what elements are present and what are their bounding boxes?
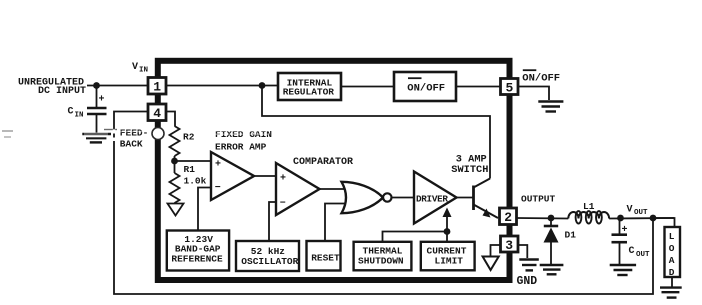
diode D1 xyxy=(550,218,552,226)
svg-text:4: 4 xyxy=(153,106,161,121)
ground under CIN xyxy=(82,133,111,135)
ground at pin5 xyxy=(538,100,563,102)
transistor Q1 3 amp switch xyxy=(472,186,475,211)
svg-text:R2: R2 xyxy=(183,132,195,143)
wire: bandgap to error amp - input xyxy=(198,188,211,231)
wire: comparator out to gate xyxy=(320,188,347,190)
svg-text:ON/OFF: ON/OFF xyxy=(522,72,560,84)
svg-text:V: V xyxy=(627,205,633,216)
svg-text:OUT: OUT xyxy=(636,251,650,259)
box: oscillator xyxy=(236,241,299,271)
wire: pin1 to internal regulator xyxy=(167,85,278,87)
svg-text:LIMIT: LIMIT xyxy=(435,255,464,266)
ground arrow below R1 xyxy=(168,204,184,216)
svg-text:GND: GND xyxy=(517,275,538,288)
node: feedback divider junction xyxy=(171,158,178,165)
capacitor CIN xyxy=(87,107,107,110)
svg-text:L1: L1 xyxy=(583,201,595,212)
load box xyxy=(665,227,681,277)
resistor R2 xyxy=(170,126,180,156)
svg-text:+: + xyxy=(622,225,628,236)
ground at pin3 xyxy=(519,258,539,260)
svg-text:R1: R1 xyxy=(184,164,196,175)
node: Vout junction xyxy=(650,215,657,222)
node: input junction xyxy=(93,82,100,89)
wire: feedback loop (pin4 left, down, bottom, up to Vout) xyxy=(114,112,653,295)
svg-text:ON/OFF: ON/OFF xyxy=(407,83,445,95)
wire: pin3 right to gnd xyxy=(518,245,527,258)
wire: regulator to on/off box xyxy=(341,86,394,88)
wire: driver to transistor base xyxy=(457,197,474,199)
wire: error amp out to comparator + xyxy=(254,175,276,177)
svg-text:IN: IN xyxy=(139,67,148,75)
svg-text:D1: D1 xyxy=(565,230,577,241)
box: current limit xyxy=(421,242,475,270)
svg-text:ERROR AMP: ERROR AMP xyxy=(215,142,267,153)
wire: unregulated input to pin 1 xyxy=(87,85,149,87)
svg-text:C: C xyxy=(629,246,635,257)
IC boundary thick border xyxy=(158,61,510,280)
box: bandgap reference xyxy=(167,231,229,271)
node: protection junction xyxy=(444,228,451,235)
wire: pin2 output line xyxy=(517,217,569,220)
ground under D1 xyxy=(540,264,564,266)
svg-text:REGULATOR: REGULATOR xyxy=(283,87,335,98)
pin 5 xyxy=(501,79,519,95)
pin 3 xyxy=(501,236,519,252)
svg-text:OUTPUT: OUTPUT xyxy=(521,194,556,205)
box: reset xyxy=(307,241,341,271)
wire: load to ground xyxy=(671,277,673,287)
NOR gate xyxy=(342,182,384,213)
watermark circle artifact xyxy=(152,128,164,140)
ground under LOAD xyxy=(660,286,682,288)
node: diode junction xyxy=(548,215,555,222)
ground arrow at pin3 inside xyxy=(483,257,499,271)
wire: gate to driver xyxy=(392,197,415,199)
svg-text:FEED-: FEED- xyxy=(120,128,149,139)
svg-text:RESET: RESET xyxy=(311,252,340,263)
node: Vin rail junction xyxy=(259,82,266,89)
box: thermal shutdown xyxy=(354,242,412,270)
svg-text:1.0k: 1.0k xyxy=(184,176,207,187)
svg-text:−: − xyxy=(215,183,221,194)
wire: arrow up into driver xyxy=(446,215,448,232)
wire: R2 to node xyxy=(174,156,176,161)
svg-text:D: D xyxy=(669,267,675,278)
svg-text:O: O xyxy=(669,243,675,254)
wire: node to R1 xyxy=(174,161,176,173)
wire: oscillator to comparator - input xyxy=(269,202,276,241)
svg-text:BACK: BACK xyxy=(120,139,143,150)
op-amp error amp xyxy=(211,152,254,200)
svg-text:A: A xyxy=(669,255,675,266)
svg-text:+: + xyxy=(215,160,221,171)
wire: reset to gate input xyxy=(325,204,347,242)
wire: pin5 to external ground xyxy=(518,87,549,101)
svg-text:−: − xyxy=(280,199,286,210)
svg-text:IN: IN xyxy=(75,112,84,120)
wire: Vin rail down and across to switch collector xyxy=(262,86,490,179)
wire: Cin stem bottom xyxy=(96,114,98,133)
pin 4 xyxy=(148,104,166,121)
wire: Cin stem top xyxy=(96,86,98,108)
wire: Vout to load xyxy=(653,218,675,227)
svg-text:DC INPUT: DC INPUT xyxy=(38,86,86,97)
svg-text:2: 2 xyxy=(504,210,512,225)
wire: node to error amp + input xyxy=(175,160,212,162)
wire: pin4 to R2 xyxy=(166,112,175,127)
resistor R1 xyxy=(170,173,180,203)
wire: thermal/current to driver arrow xyxy=(383,232,448,242)
op-amp comparator xyxy=(276,163,320,215)
svg-text:OSCILLATOR: OSCILLATOR xyxy=(241,256,298,267)
svg-text:5: 5 xyxy=(506,81,514,96)
pin 2 xyxy=(500,208,517,225)
svg-text:SHUTDOWN: SHUTDOWN xyxy=(358,255,404,266)
svg-text:+: + xyxy=(99,95,105,106)
svg-text:3: 3 xyxy=(505,238,513,253)
wire: pin3 left to internal ground arrow xyxy=(491,245,502,256)
pin 1 xyxy=(148,78,166,95)
svg-text:COMPARATOR: COMPARATOR xyxy=(293,157,353,168)
svg-text:DRIVER: DRIVER xyxy=(416,194,448,205)
driver amp U-driver xyxy=(414,172,457,224)
svg-text:+: + xyxy=(280,174,286,185)
svg-text:1: 1 xyxy=(153,80,161,95)
box: internal regulator xyxy=(278,73,341,100)
wire: on/off box to pin5 xyxy=(456,86,501,88)
svg-text:C: C xyxy=(68,107,74,118)
box: on/off internal xyxy=(394,72,456,101)
inductor L1 xyxy=(568,212,609,219)
svg-text:L: L xyxy=(669,231,675,242)
node: Cout junction xyxy=(617,215,624,222)
ground under COUT xyxy=(610,264,636,266)
svg-text:V: V xyxy=(132,62,138,73)
watermark dashes xyxy=(2,130,269,142)
svg-text:REFERENCE: REFERENCE xyxy=(171,253,223,264)
svg-text:SWITCH: SWITCH xyxy=(451,164,488,176)
capacitor COUT xyxy=(619,218,621,234)
svg-text:OUT: OUT xyxy=(634,209,648,217)
